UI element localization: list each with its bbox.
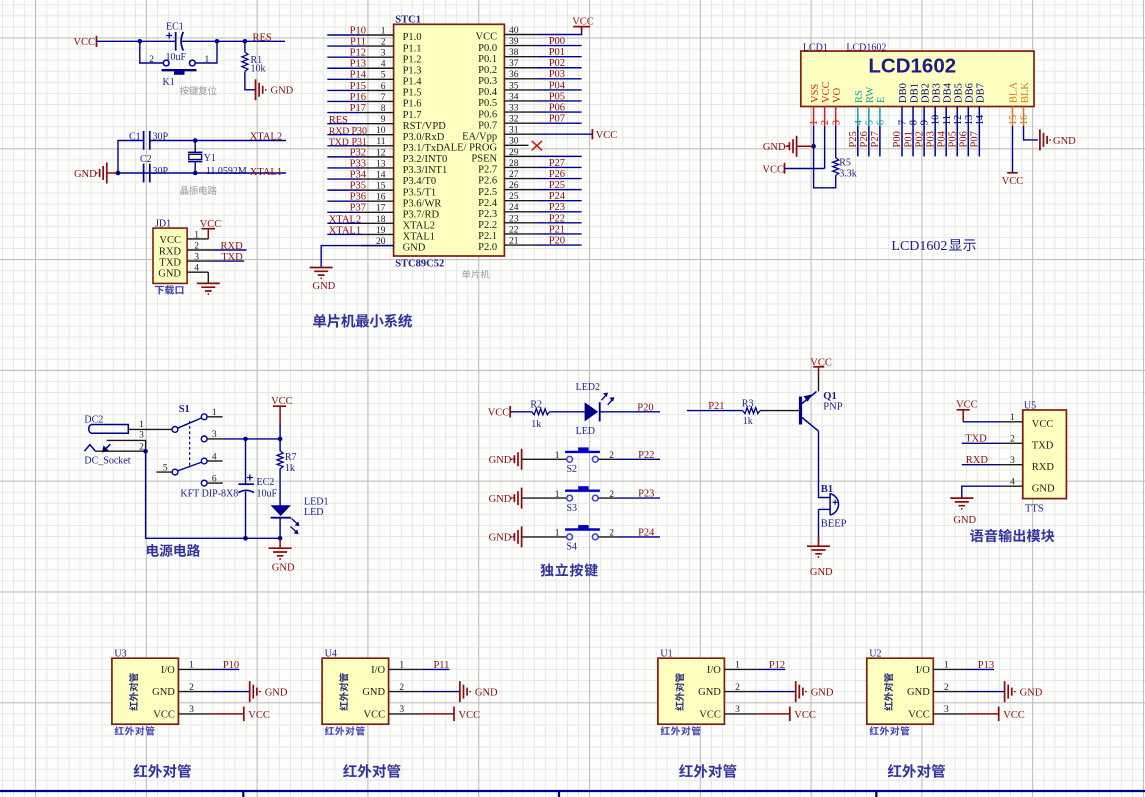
- transistor Q1 PNP: [799, 397, 802, 425]
- svg-text:35: 35: [509, 81, 519, 91]
- svg-text:7: 7: [381, 93, 386, 103]
- wire net P05: [537, 100, 582, 102]
- wire net P15: [327, 89, 361, 91]
- svg-text:DB4: DB4: [942, 82, 953, 103]
- wire LCD pin12 net P05: [956, 126, 958, 156]
- wire LCD pin14 net P07: [978, 126, 980, 156]
- wire net XTAL1 (pin19): [327, 233, 361, 235]
- svg-text:3.3k: 3.3k: [839, 169, 857, 180]
- resistor R7 1k: [279, 439, 281, 451]
- wire buzzer to GND: [818, 509, 820, 545]
- wire net P27: [537, 166, 582, 168]
- wire LCD pin5 net P26: [868, 126, 870, 156]
- pin 36 STC1 (P0.3): [504, 78, 537, 80]
- svg-text:XTAL1: XTAL1: [403, 232, 435, 243]
- wire net P06: [537, 111, 582, 113]
- pin 1 LCD1602 (VSS): [813, 107, 815, 126]
- svg-text:P1.7: P1.7: [403, 110, 422, 121]
- label 红外对管 title (U2): [888, 764, 945, 778]
- svg-text:TTS: TTS: [1025, 504, 1044, 515]
- svg-text:R7: R7: [285, 452, 297, 463]
- wire net P34: [327, 178, 361, 180]
- wire EC1 to junction: [182, 40, 217, 42]
- svg-text:P2.5: P2.5: [478, 187, 497, 198]
- wire net P17: [327, 112, 361, 114]
- resistor R2 1k: [532, 409, 550, 415]
- svg-text:TXD: TXD: [159, 257, 181, 268]
- svg-text:21: 21: [509, 236, 519, 246]
- wire net P22: [537, 222, 582, 224]
- svg-text:GND: GND: [810, 567, 833, 578]
- svg-text:4: 4: [381, 60, 386, 70]
- svg-text:VCC: VCC: [159, 235, 181, 246]
- node junction LCD gnd: [811, 144, 816, 149]
- label 红外对管 title (U3): [134, 764, 191, 778]
- svg-text:P01: P01: [903, 131, 914, 147]
- power port VCC (U1): [789, 707, 791, 722]
- svg-text:22: 22: [509, 225, 519, 235]
- svg-text:3: 3: [1010, 456, 1015, 466]
- pin 11 STC1 (P3.1/TxD): [361, 145, 394, 147]
- wire net P21: [687, 410, 743, 412]
- svg-text:16: 16: [376, 193, 386, 203]
- svg-text:P13: P13: [350, 59, 366, 70]
- svg-text:P16: P16: [350, 92, 366, 103]
- resistor R1 10k: [244, 41, 246, 52]
- svg-text:P2.3: P2.3: [478, 209, 497, 220]
- pin 4 STC1 (P1.3): [361, 67, 394, 69]
- svg-text:8: 8: [909, 120, 920, 125]
- power ground (JD1): [197, 283, 220, 294]
- pin 20 STC1 (GND): [361, 245, 394, 247]
- node junction R1: [243, 39, 248, 44]
- svg-text:32: 32: [509, 115, 519, 125]
- svg-text:13: 13: [964, 115, 975, 126]
- wire LCD pin2 to VCC: [824, 126, 826, 169]
- S1 throw 5-4: [178, 462, 202, 471]
- pin 38 STC1 (P0.1): [504, 56, 537, 58]
- svg-text:DB6: DB6: [965, 83, 976, 103]
- svg-text:VO: VO: [832, 87, 843, 103]
- svg-text:VCC: VCC: [699, 709, 721, 720]
- pin 3 LCD1602 (VO): [835, 107, 837, 126]
- pin 34 STC1 (P0.5): [504, 100, 537, 102]
- pin 1 U4 / wire P11: [389, 668, 422, 670]
- wire bottom XTAL1: [118, 172, 286, 174]
- crystal Y1 11.0592M: [194, 141, 196, 153]
- LED LED2: [585, 402, 599, 421]
- svg-text:LED2: LED2: [576, 382, 600, 393]
- svg-text:10uF: 10uF: [257, 488, 278, 499]
- label 红外对管 small (U3): [115, 726, 155, 735]
- svg-text:P2.4: P2.4: [478, 198, 498, 209]
- wire R5 bottom loop to pin1 net: [814, 146, 836, 188]
- svg-text:10: 10: [376, 126, 386, 136]
- svg-text:P20: P20: [549, 235, 565, 246]
- svg-text:1: 1: [194, 230, 199, 240]
- wire LCD pin15 to VCC: [1012, 126, 1014, 173]
- svg-text:P26: P26: [859, 131, 870, 147]
- svg-text:3: 3: [189, 705, 194, 715]
- svg-text:12: 12: [953, 115, 964, 126]
- node junction right: [215, 39, 220, 44]
- svg-text:GND: GND: [763, 142, 786, 153]
- svg-text:36: 36: [509, 70, 519, 80]
- pin 2 STC1 (P1.1): [361, 45, 394, 47]
- power ground (backlight): [1040, 129, 1050, 150]
- svg-text:P1.3: P1.3: [403, 65, 422, 76]
- svg-text:LED1: LED1: [304, 496, 328, 507]
- svg-text:38: 38: [509, 48, 519, 58]
- pin 4 LCD1602 (RS): [857, 107, 859, 126]
- svg-text:S2: S2: [567, 464, 578, 475]
- pin 37 STC1 (P0.2): [504, 67, 537, 69]
- pin 1 STC1 (P1.0): [361, 34, 394, 36]
- svg-text:40: 40: [509, 26, 519, 36]
- svg-text:STC89C52: STC89C52: [395, 259, 444, 270]
- wire LED2 to P20: [600, 411, 660, 413]
- power ground (STC1): [310, 268, 333, 279]
- svg-text:GND: GND: [1020, 687, 1043, 698]
- svg-text:GND: GND: [362, 687, 385, 698]
- svg-text:I/O: I/O: [707, 665, 721, 676]
- svg-text:3: 3: [381, 49, 386, 59]
- wire net P33: [327, 167, 361, 169]
- svg-text:P3.6/WR: P3.6/WR: [403, 198, 442, 209]
- svg-text:23: 23: [509, 214, 519, 224]
- svg-text:P31: P31: [352, 137, 368, 148]
- svg-text:R3: R3: [742, 399, 754, 410]
- wire LCD pin11 net P04: [945, 126, 947, 156]
- wire LCD pin13 net P06: [967, 126, 969, 156]
- svg-text:2: 2: [381, 37, 386, 47]
- svg-text:1: 1: [944, 661, 949, 671]
- pin 33 STC1 (P0.6): [504, 111, 537, 113]
- sheet border tick 2: [558, 791, 560, 797]
- wire VCC to pin2: [785, 168, 825, 170]
- svg-text:1: 1: [189, 661, 194, 671]
- svg-text:2: 2: [149, 55, 154, 65]
- svg-text:3: 3: [735, 705, 740, 715]
- svg-text:GND: GND: [907, 687, 930, 698]
- pin 10 STC1 (P3.0/RxD): [361, 134, 394, 136]
- svg-text:33: 33: [509, 103, 519, 113]
- svg-text:P14: P14: [350, 70, 367, 81]
- pin 25 STC1 (P2.4): [504, 200, 537, 202]
- svg-text:TXD: TXD: [329, 137, 349, 148]
- svg-text:GND: GND: [313, 281, 336, 292]
- svg-text:GND: GND: [272, 563, 295, 574]
- pin 26 STC1 (P2.5): [504, 189, 537, 191]
- svg-text:27: 27: [509, 170, 519, 180]
- wire collector to buzzer: [819, 431, 830, 497]
- wire net P21: [537, 233, 582, 235]
- wire net RXD (pin10): [327, 134, 361, 136]
- DC2 sleeve contact: [84, 444, 110, 451]
- wire net P20: [537, 244, 582, 246]
- svg-text:RXD: RXD: [1032, 462, 1055, 473]
- svg-text:EC2: EC2: [257, 477, 275, 488]
- wire VCC to emitter: [818, 374, 820, 392]
- svg-text:GND: GND: [489, 533, 512, 544]
- wire LCD pin1 to gnd junction: [813, 126, 815, 146]
- wire net P13: [327, 67, 361, 69]
- capacitor C1 30P: [143, 131, 145, 150]
- wire net P12: [327, 56, 361, 58]
- svg-text:9: 9: [920, 120, 931, 125]
- svg-text:P00: P00: [892, 131, 903, 147]
- node junction rail LED1: [278, 536, 283, 541]
- svg-text:EA/Vpp: EA/Vpp: [462, 131, 497, 142]
- svg-text:P23: P23: [549, 202, 565, 213]
- pin 17 STC1 (P3.7/RD): [361, 211, 394, 213]
- pin 14 LCD1602 (DB7): [978, 107, 980, 126]
- svg-text:10: 10: [931, 115, 942, 126]
- svg-text:P22: P22: [638, 450, 654, 461]
- S1 throw 2-1: [178, 418, 202, 428]
- pin 3 U5 (RXD): [1001, 464, 1023, 466]
- svg-text:39: 39: [509, 37, 519, 47]
- svg-text:31: 31: [509, 126, 519, 136]
- svg-text:VCC: VCC: [153, 709, 175, 720]
- wire net RXD (U5): [962, 464, 1001, 466]
- svg-text:1k: 1k: [531, 419, 541, 430]
- pin 3 U3 / wire to VCC: [178, 713, 211, 715]
- svg-text:P06: P06: [959, 131, 970, 147]
- svg-text:VCC: VCC: [596, 130, 618, 141]
- svg-text:TXD: TXD: [221, 252, 243, 263]
- svg-text:3: 3: [831, 120, 842, 125]
- power port VCC (pin31): [591, 129, 593, 139]
- label 电源电路: [147, 544, 200, 557]
- svg-text:P2.7: P2.7: [478, 165, 497, 176]
- wire GND to S4: [522, 536, 567, 538]
- svg-text:P2.1: P2.1: [478, 231, 497, 242]
- svg-text:1k: 1k: [285, 463, 295, 474]
- svg-text:BLA: BLA: [1009, 82, 1020, 103]
- pin 22 STC1 (P2.1): [504, 233, 537, 235]
- svg-text:P32: P32: [350, 147, 366, 158]
- power ground (U5): [950, 498, 973, 509]
- svg-text:PSEN: PSEN: [471, 154, 497, 165]
- svg-text:P00: P00: [549, 36, 565, 47]
- svg-text:2: 2: [399, 683, 404, 693]
- pin 32 STC1 (P0.7): [504, 122, 537, 124]
- svg-text:P06: P06: [549, 102, 565, 113]
- svg-text:25: 25: [509, 192, 519, 202]
- svg-text:GND: GND: [475, 687, 498, 698]
- pin 3 U1 / wire to VCC: [724, 713, 757, 715]
- svg-text:GND: GND: [489, 455, 512, 466]
- svg-text:P12: P12: [769, 660, 785, 671]
- svg-text:K1: K1: [163, 77, 175, 88]
- power port VCC (backlight): [1007, 172, 1018, 174]
- pin 7 LCD1602 (DB0): [901, 107, 903, 126]
- pin 11 LCD1602 (DB4): [945, 107, 947, 126]
- pin 18 STC1 (XTAL2): [361, 222, 394, 224]
- label 晶振电路: [180, 186, 216, 195]
- wire net TXD (U5): [962, 442, 1001, 444]
- push button S3: [567, 495, 573, 501]
- wire rail to GND: [279, 538, 281, 547]
- svg-text:1: 1: [381, 26, 386, 36]
- svg-text:12: 12: [376, 148, 386, 158]
- svg-text:DB7: DB7: [976, 83, 987, 103]
- pin 15 STC1 (P3.5/T1): [361, 189, 394, 191]
- svg-text:ALE/ PROG: ALE/ PROG: [443, 143, 497, 154]
- svg-text:P36: P36: [350, 192, 366, 203]
- svg-text:C2: C2: [140, 154, 152, 165]
- svg-text:P03: P03: [925, 131, 936, 147]
- wire S4 to P24: [598, 536, 618, 538]
- label 独立按键: [540, 563, 597, 576]
- wire S2 to P22: [598, 458, 618, 460]
- node junction R7 top: [278, 437, 283, 442]
- svg-text:P05: P05: [947, 131, 958, 147]
- wire LCD pin10 net P03: [934, 126, 936, 156]
- svg-text:VCC: VCC: [794, 710, 816, 721]
- power port VCC (U3): [243, 707, 245, 722]
- power port VCC (pin40): [573, 26, 590, 28]
- svg-text:6: 6: [381, 82, 386, 92]
- svg-text:P26: P26: [549, 169, 565, 180]
- svg-text:P0.2: P0.2: [478, 65, 497, 76]
- wire down-left to K1: [140, 41, 163, 63]
- svg-text:KFT DIP-8X8: KFT DIP-8X8: [180, 488, 238, 499]
- svg-text:1k: 1k: [743, 416, 753, 427]
- LED LED1: [271, 505, 291, 516]
- power ground (U1): [796, 681, 806, 702]
- label 红外对管 small (U1): [661, 726, 701, 735]
- label 红外对管 small (U4): [325, 726, 365, 735]
- svg-text:GND: GND: [1053, 136, 1076, 147]
- svg-text:P13: P13: [978, 660, 994, 671]
- pin 30 STC1 (ALE/ PROG): [504, 144, 528, 146]
- svg-text:I/O: I/O: [161, 665, 175, 676]
- pin 2 LCD1602 (VCC): [824, 107, 826, 126]
- wire C1 to junction XTAL2: [150, 140, 195, 142]
- svg-text:EC1: EC1: [166, 22, 184, 33]
- wire net P24: [537, 200, 582, 202]
- pin 3 U2 / wire to VCC: [933, 713, 966, 715]
- svg-text:2: 2: [944, 683, 949, 693]
- label 按键复位: [180, 86, 217, 95]
- svg-text:I/O: I/O: [371, 665, 385, 676]
- svg-text:P24: P24: [549, 191, 566, 202]
- svg-text:P37: P37: [350, 203, 366, 214]
- label 单片机最小系统: [313, 314, 412, 328]
- pin 21 STC1 (P2.0): [504, 244, 537, 246]
- svg-text:VCC: VCC: [364, 709, 386, 720]
- wire pin29: [537, 155, 582, 157]
- svg-text:DB2: DB2: [920, 83, 931, 103]
- wire EC2 to rail: [245, 492, 247, 539]
- svg-text:P1.0: P1.0: [403, 32, 422, 43]
- svg-text:RS: RS: [854, 90, 865, 103]
- svg-text:1: 1: [1010, 413, 1015, 423]
- wire R7 to LED1: [279, 469, 281, 506]
- svg-text:8: 8: [381, 104, 386, 114]
- svg-text:P30: P30: [352, 126, 368, 137]
- svg-text:VCC: VCC: [248, 710, 270, 721]
- svg-text:2: 2: [820, 120, 831, 125]
- pin 16 LCD1602 (BLK): [1023, 107, 1025, 126]
- svg-text:P34: P34: [350, 169, 367, 180]
- pin 2 U1 / wire to GND: [724, 691, 757, 693]
- svg-text:P0.3: P0.3: [478, 76, 497, 87]
- svg-text:14: 14: [975, 114, 986, 125]
- power ground (reset): [256, 79, 266, 100]
- label 红外对管 title (U4): [343, 764, 400, 778]
- pin 2 JD1 / wire RXD: [187, 249, 213, 251]
- wire net P26: [537, 178, 582, 180]
- pin 1 U3 / wire P10: [178, 668, 211, 670]
- capacitor C2 30P: [143, 164, 145, 183]
- svg-text:P1.1: P1.1: [403, 43, 422, 54]
- pin 27 STC1 (P2.6): [504, 178, 537, 180]
- svg-text:XTAL1: XTAL1: [250, 167, 282, 178]
- svg-text:P3.0/RxD: P3.0/RxD: [403, 132, 445, 143]
- wire net P35: [327, 189, 361, 191]
- svg-text:LCD1602: LCD1602: [891, 239, 947, 254]
- svg-text:P01: P01: [549, 47, 565, 58]
- pin 12 STC1 (P3.2/INT0): [361, 156, 394, 158]
- svg-text:3: 3: [194, 253, 199, 263]
- pin 10 LCD1602 (DB3): [934, 107, 936, 126]
- svg-text:18: 18: [376, 215, 386, 225]
- pin 8 STC1 (P1.7): [361, 112, 394, 114]
- svg-text:P3.1/TxD: P3.1/TxD: [403, 143, 445, 154]
- node junction XTAL1: [193, 171, 198, 176]
- svg-text:30: 30: [509, 137, 519, 147]
- svg-text:1: 1: [735, 661, 740, 671]
- svg-text:P0.0: P0.0: [478, 43, 497, 54]
- power port VCC (U2): [998, 707, 1000, 722]
- svg-text:P20: P20: [637, 403, 653, 414]
- wire net P01: [537, 56, 582, 58]
- wire JD1 pin4 to GND: [207, 272, 209, 283]
- svg-text:34: 34: [509, 92, 519, 102]
- svg-text:GND: GND: [152, 687, 175, 698]
- svg-text:14: 14: [376, 170, 386, 180]
- svg-text:P1.5: P1.5: [403, 88, 422, 99]
- svg-text:VCC: VCC: [821, 81, 832, 103]
- pin 19 STC1 (XTAL1): [361, 233, 394, 235]
- svg-text:P0.1: P0.1: [478, 54, 497, 65]
- resistor R5 3.3k: [833, 158, 839, 176]
- wire rail to LED1: [246, 537, 281, 539]
- svg-text:P25: P25: [549, 180, 565, 191]
- pin 1 U2 / wire P13: [933, 668, 966, 670]
- label 语音输出模块: [970, 529, 1054, 542]
- svg-text:TXD: TXD: [965, 434, 987, 445]
- svg-text:P22: P22: [549, 213, 565, 224]
- svg-text:P02: P02: [549, 58, 565, 69]
- pin 13 STC1 (P3.3/INT1): [361, 167, 394, 169]
- node junction left: [138, 39, 143, 44]
- svg-text:16: 16: [1019, 115, 1030, 126]
- svg-text:VCC: VCC: [572, 17, 594, 28]
- svg-text:C1: C1: [129, 132, 141, 143]
- svg-text:P25: P25: [848, 131, 859, 147]
- svg-text:BEEP: BEEP: [821, 519, 847, 530]
- wire net P03: [537, 78, 582, 80]
- wire net P11: [327, 45, 361, 47]
- svg-text:24: 24: [509, 203, 519, 213]
- svg-text:P10: P10: [223, 660, 239, 671]
- wire net P23: [537, 211, 582, 213]
- wire net P37: [327, 211, 361, 213]
